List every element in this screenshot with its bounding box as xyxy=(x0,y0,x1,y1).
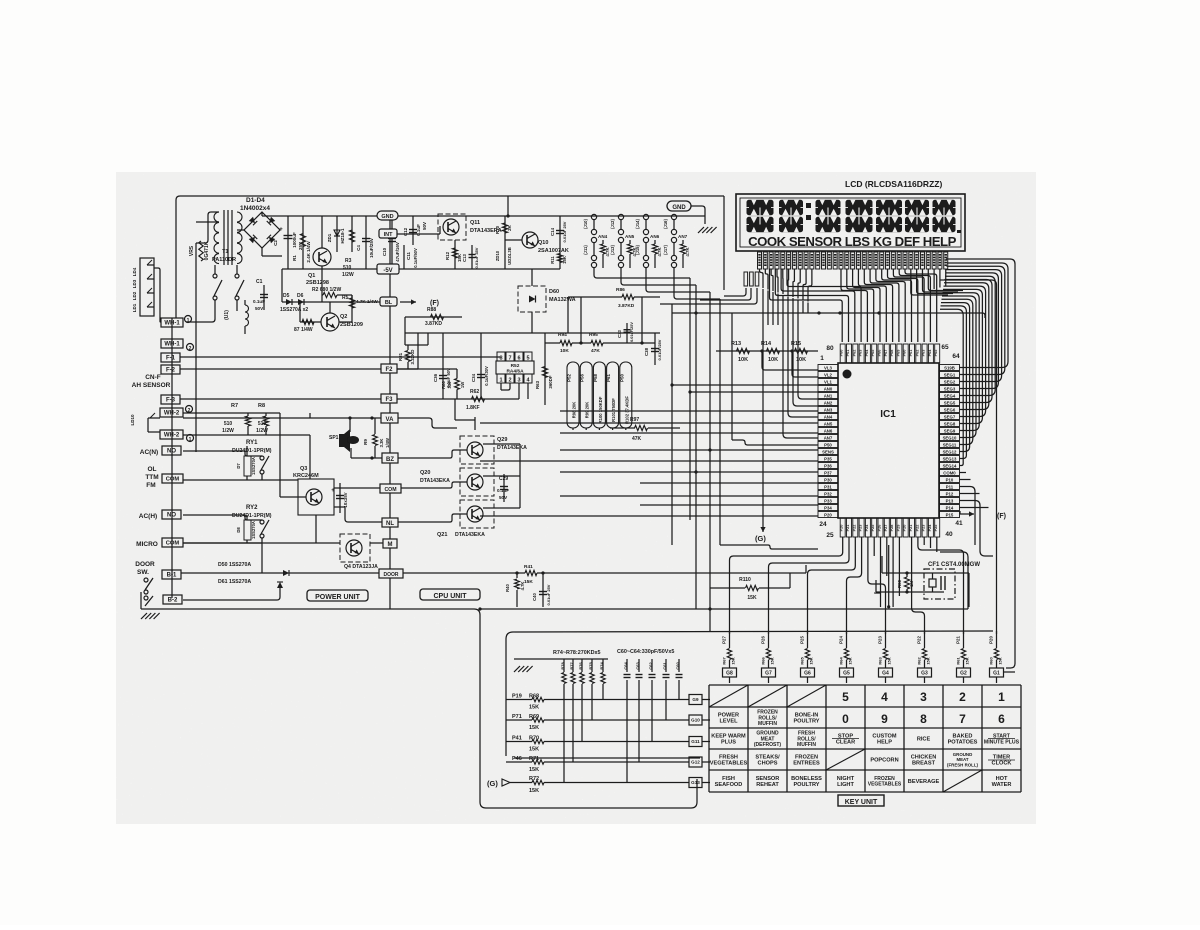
capacitor C36 xyxy=(442,333,444,399)
terminal M xyxy=(383,539,397,548)
wire ic right lower stubs xyxy=(960,472,967,474)
capacitor C14 xyxy=(559,216,561,247)
wire F-2 row xyxy=(180,368,381,370)
resistor R12 xyxy=(454,240,456,269)
terminal INT xyxy=(379,229,397,238)
capacitor C6 xyxy=(339,483,341,513)
resistor R86 xyxy=(622,294,634,299)
resistor R13 xyxy=(737,348,750,353)
wire ic left mesh horizontals xyxy=(672,384,818,386)
zener ZD1 xyxy=(336,216,338,252)
row connector boxes G9-G13 xyxy=(689,695,702,705)
ground left bottom xyxy=(141,613,147,619)
wire AC primary vertical xyxy=(195,243,197,452)
wire VA row xyxy=(183,417,381,419)
terminal NL xyxy=(382,518,398,527)
resistor R7 xyxy=(245,416,250,426)
wire com bends xyxy=(723,196,725,290)
wire r13 bends xyxy=(762,351,818,370)
resistor R1 xyxy=(302,216,304,269)
IC1 index dot xyxy=(843,370,852,379)
capacitor C33 xyxy=(626,323,628,343)
LCD outer box xyxy=(736,194,965,251)
terminal WH-2 (2) xyxy=(160,408,183,417)
wire D5 branch xyxy=(281,269,283,302)
terminal WH-2 (1) xyxy=(160,430,183,439)
IC1 left pins xyxy=(818,365,838,371)
wire right rail top xyxy=(946,259,1015,668)
terminal B-1 xyxy=(162,570,181,579)
resistor R4 xyxy=(300,321,321,323)
resistor R63 xyxy=(544,333,546,405)
diode bridge D1-D4 xyxy=(244,212,280,248)
resistor R8 xyxy=(263,416,268,426)
wire lcd bundle fan to pins xyxy=(798,325,818,399)
terminal F-2 xyxy=(161,365,180,374)
resistor R110 xyxy=(746,585,759,590)
ground key unit xyxy=(514,666,520,672)
wire ic left mesh verticals xyxy=(671,304,673,545)
column P25 net xyxy=(807,631,809,648)
power rail low xyxy=(282,268,378,270)
terminal WH-1 (2) xyxy=(161,339,183,348)
resistor R81 xyxy=(405,351,410,362)
wire F2 to mesh xyxy=(397,368,418,370)
transistor Q2 2SB1209 xyxy=(321,313,339,331)
terminal DOOR xyxy=(379,569,403,578)
wire LD to WH-1 xyxy=(154,268,161,322)
transistor Q4 DTA123JA xyxy=(340,534,370,562)
resistor group R98-R102 labels xyxy=(567,362,579,428)
wire door branches xyxy=(262,479,298,481)
key diagonal cells xyxy=(709,685,748,707)
transistor Q11 DTA143ERA xyxy=(438,214,466,240)
connector LD1-LD4 xyxy=(140,258,154,316)
wire VA right jog xyxy=(398,418,457,428)
terminal WH-1 (1) xyxy=(161,318,183,327)
wire ic left bends xyxy=(732,440,818,445)
IC1 bottom pins xyxy=(840,518,845,537)
terminal -5V xyxy=(377,264,399,274)
column P24 net xyxy=(846,631,848,648)
wire Q2x collectors xyxy=(483,443,520,445)
terminal F-1 xyxy=(161,353,180,362)
diode D60 MA132WA xyxy=(518,286,546,312)
arrow F right xyxy=(960,513,974,515)
diode D8 xyxy=(244,520,251,540)
column P21 net xyxy=(963,631,965,648)
resistor R94 xyxy=(560,340,572,345)
wire R13 R14 R15 row xyxy=(716,350,818,352)
resistor R15 xyxy=(795,348,808,353)
wire to BL xyxy=(339,321,352,323)
column P23 net xyxy=(885,631,887,648)
capacitor C34 xyxy=(480,333,482,399)
gnd top box xyxy=(667,201,691,211)
IC1 top pins xyxy=(840,344,845,363)
junction dots mesh xyxy=(670,383,673,386)
resistor R95 xyxy=(591,340,603,345)
wire switch2 to WH-1(2) xyxy=(236,300,238,311)
wire J bottom steps xyxy=(594,272,690,278)
terminal B-2 xyxy=(163,595,182,604)
left bus vertical xyxy=(171,318,173,598)
LCD pin row xyxy=(758,252,762,269)
transistor Q20 DTA143EKA xyxy=(460,468,494,496)
scan noise overlay xyxy=(116,172,1036,824)
bottom long rail xyxy=(141,609,697,808)
capacitor C29 xyxy=(503,474,505,502)
wire G1 right link xyxy=(1003,671,1015,673)
transistor Q21 DTA143EKA xyxy=(460,500,494,528)
terminal COM mid xyxy=(380,484,401,493)
wire top rail drop xyxy=(507,196,509,216)
arrow BL to F xyxy=(400,301,416,303)
transistor Q29 DTA143EKA xyxy=(460,436,494,464)
label CPU UNIT xyxy=(420,589,480,600)
resistor R11 xyxy=(559,247,561,269)
resistor R88 xyxy=(405,316,462,318)
terminal F2 xyxy=(381,364,397,373)
resistor R14 xyxy=(767,348,780,353)
wire mesh line y313 xyxy=(672,313,985,318)
wire bridge to rails xyxy=(261,212,263,216)
wire mesh cpu xyxy=(405,332,660,334)
wire B-2 to D61 xyxy=(183,585,280,600)
wire ic bottom mid pins xyxy=(873,537,875,556)
wire transformer primary top xyxy=(196,212,219,243)
wire ic right pin curls xyxy=(947,263,1008,368)
key matrix grid xyxy=(709,684,1021,686)
wire rail up corner xyxy=(940,552,968,609)
wire RA pins down xyxy=(500,383,502,390)
relay U1 contacts xyxy=(213,274,217,278)
resistor R2 label xyxy=(323,292,337,297)
wire cf1 connect xyxy=(882,572,969,574)
wire -5V right xyxy=(399,268,560,270)
wire F-3 row xyxy=(180,398,381,400)
wire switch to WH-1 xyxy=(186,300,215,322)
wire ic bottom right pins xyxy=(912,537,925,634)
LCD digits xyxy=(747,200,774,216)
capacitor C1 xyxy=(263,285,265,310)
diode D7 xyxy=(244,456,251,476)
resistor R97 xyxy=(635,425,648,430)
wire WH-2(2) row xyxy=(183,412,280,414)
key resistors R74-R78 xyxy=(563,659,565,672)
resistor array RA4/6A xyxy=(497,352,505,361)
capacitor C2 xyxy=(287,216,289,269)
wire door row to mesh xyxy=(560,572,806,574)
terminal GND mid xyxy=(377,211,398,220)
wire right rail 2 xyxy=(940,280,997,634)
resistor R3 xyxy=(351,216,353,252)
terminal BL xyxy=(380,297,397,306)
wire mesh vertical to Q29 xyxy=(427,333,429,345)
column P27 net xyxy=(729,631,731,648)
resistor R5 xyxy=(351,295,353,310)
terminal COM xyxy=(162,474,183,483)
resistor R62 xyxy=(455,398,519,400)
wire F3 row right xyxy=(397,398,455,400)
capacitor C13 xyxy=(471,245,473,269)
capacitor C38 xyxy=(654,333,656,365)
power rail top xyxy=(282,215,396,217)
column P26 net xyxy=(768,631,770,648)
wire key resistor drops xyxy=(563,684,565,783)
capacitor C11 xyxy=(403,245,405,269)
LCD colon xyxy=(806,203,811,208)
resistor R80 xyxy=(455,379,460,390)
capacitor C10 xyxy=(391,216,393,269)
key unit enclosure xyxy=(506,631,993,756)
capacitor C40 xyxy=(542,573,544,607)
wire BZ to Q29 xyxy=(398,450,467,458)
transistor Q10 2SA1007AK xyxy=(522,232,538,248)
zener ZD10 xyxy=(504,242,506,269)
label KEY UNIT xyxy=(838,795,884,806)
wire Q1 emitter xyxy=(321,266,323,302)
capacitor C4 xyxy=(365,216,367,269)
wire F-1 row xyxy=(180,356,500,358)
resistor R40 xyxy=(516,573,518,578)
wire g net arrow xyxy=(762,325,764,520)
wire top rail xyxy=(176,196,724,318)
wire long bottom rail xyxy=(480,608,968,610)
terminal VA xyxy=(381,413,398,423)
door switch contacts xyxy=(144,578,148,582)
wire lcd pins to ic top xyxy=(770,269,843,342)
ground symbol cpu xyxy=(698,227,704,233)
wire B-1 DOOR row xyxy=(181,572,383,574)
terminal F-3 xyxy=(161,395,180,404)
wire ic bottom pin drops xyxy=(730,537,843,634)
gnd rail right xyxy=(398,215,705,217)
label POWER UNIT xyxy=(307,590,368,601)
wire WH-2(1) row xyxy=(183,434,310,436)
wire G13 bottom xyxy=(696,779,698,786)
column P22 net xyxy=(924,631,926,648)
LCD com pins xyxy=(744,272,748,286)
wire lcd bundle verticals xyxy=(762,289,764,325)
terminal F3 xyxy=(381,394,397,403)
relay U1 coil xyxy=(245,305,249,312)
transformer T1 xyxy=(223,210,225,265)
key caps C60-C64 xyxy=(626,659,628,672)
IC1 body xyxy=(838,363,939,518)
capacitor C12 xyxy=(412,216,414,245)
IC1 right pins xyxy=(940,365,960,371)
diodes D5 D6 xyxy=(282,301,352,303)
wire INT right xyxy=(397,233,440,235)
varistor VRS xyxy=(199,241,203,261)
transistor Q1 2SB1298 xyxy=(313,248,331,266)
terminal BZ xyxy=(382,453,398,463)
wire lcd right pins xyxy=(911,269,948,295)
resistor R10 xyxy=(504,216,506,242)
connector J pins row xyxy=(591,214,596,219)
wire lcd pin drops xyxy=(760,269,764,288)
column P20 net xyxy=(996,631,998,648)
bus vertical center xyxy=(389,220,391,609)
resistor R50 xyxy=(904,577,909,589)
